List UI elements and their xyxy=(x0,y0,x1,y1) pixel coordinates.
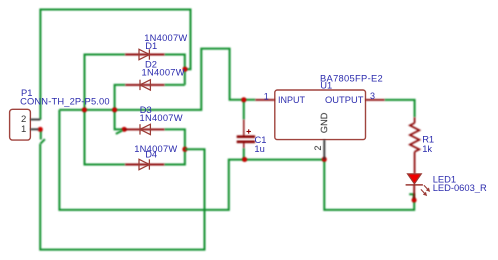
resistor R1 xyxy=(410,117,419,174)
pin line P1.1 xyxy=(30,128,38,130)
LED1 emission arrow 2 xyxy=(421,189,427,196)
svg-text:D1: D1 xyxy=(145,41,157,51)
svg-text:GND: GND xyxy=(319,112,329,133)
diode D1 xyxy=(125,54,164,56)
connector P1 body xyxy=(10,109,31,140)
LED1 emission arrow 1 xyxy=(424,185,430,192)
capacitor C1 xyxy=(237,120,255,149)
svg-text:CONN-TH_2P-P5.00: CONN-TH_2P-P5.00 xyxy=(20,96,110,106)
pin line U1.3 xyxy=(366,99,385,101)
wire C1 bottom connection xyxy=(243,148,245,160)
wire D3 right to D4 right junction xyxy=(164,129,185,164)
wire D2 anode to junction node xyxy=(165,84,185,86)
wire P1 pin1 short vertical xyxy=(40,130,42,139)
diode D4 xyxy=(125,164,164,166)
junction dot D3 anode-side xyxy=(122,127,127,132)
svg-text:OUTPUT: OUTPUT xyxy=(325,95,364,105)
svg-text:1: 1 xyxy=(264,91,269,101)
LED1 cathode pin xyxy=(413,185,415,199)
wire ground right: U1 GND down, right, up to LED cathode xyxy=(324,160,414,210)
svg-text:1N4007W: 1N4007W xyxy=(142,67,185,77)
wire D2 cathode / D3 cathode vertical column xyxy=(115,85,126,129)
svg-text:LED-0603_R: LED-0603_R xyxy=(433,183,487,193)
junction dot LED cathode xyxy=(412,198,417,203)
wire mid rail y=110 with detour to U1 input xyxy=(59,49,255,110)
svg-text:1u: 1u xyxy=(254,144,264,154)
junction dot node AC2 xyxy=(182,147,187,152)
diode D3 xyxy=(124,128,164,130)
wire jog diagonal at P1 pin1 xyxy=(40,139,45,144)
pin line P1.2 xyxy=(30,119,40,121)
svg-text:INPUT: INPUT xyxy=(278,95,306,105)
capacitor C1 plus polarity mark xyxy=(247,129,251,133)
junction dot C1 bottom xyxy=(242,157,247,162)
diode D2 xyxy=(125,84,164,86)
LED LED1 xyxy=(406,174,423,185)
wire ground run: left column down, along bottom, up to C1 bottom rail xyxy=(59,110,324,210)
wire D1 cathode to junction node xyxy=(165,55,185,85)
junction dot column x84 on mid rail xyxy=(82,107,87,112)
svg-text:2: 2 xyxy=(313,145,323,150)
junction dot P1 pin1 xyxy=(38,127,43,132)
wire node AC2 to P1 pin1 via bottom xyxy=(40,144,204,250)
svg-text:1k: 1k xyxy=(422,144,432,154)
svg-text:1: 1 xyxy=(21,124,26,135)
wire stub at LED cathode xyxy=(409,194,414,199)
pin line U1.2 GND xyxy=(323,140,325,160)
junction dot C1 top / U1 input xyxy=(241,97,246,102)
wire D1 anode / D4 anode vertical column xyxy=(85,55,126,165)
svg-text:D4: D4 xyxy=(145,150,157,160)
IC U1 regulator BA7805FP-E2 body xyxy=(275,90,366,140)
wire stub diagonal at D3 left xyxy=(116,131,123,134)
svg-text:1N4007W: 1N4007W xyxy=(140,113,183,123)
junction dot U1 GND xyxy=(322,157,327,162)
wire C1 top connection xyxy=(243,100,245,120)
svg-text:3: 3 xyxy=(370,91,375,101)
junction dot column x114 on mid rail xyxy=(112,107,117,112)
wire U1 output to R1 top xyxy=(385,100,415,117)
junction dot node AC1 xyxy=(183,67,188,72)
wire net AC1: P1 pin2 up over top to D1/D2 junction xyxy=(40,10,190,120)
pin line U1.1 xyxy=(255,99,274,101)
svg-text:U1: U1 xyxy=(320,80,332,90)
